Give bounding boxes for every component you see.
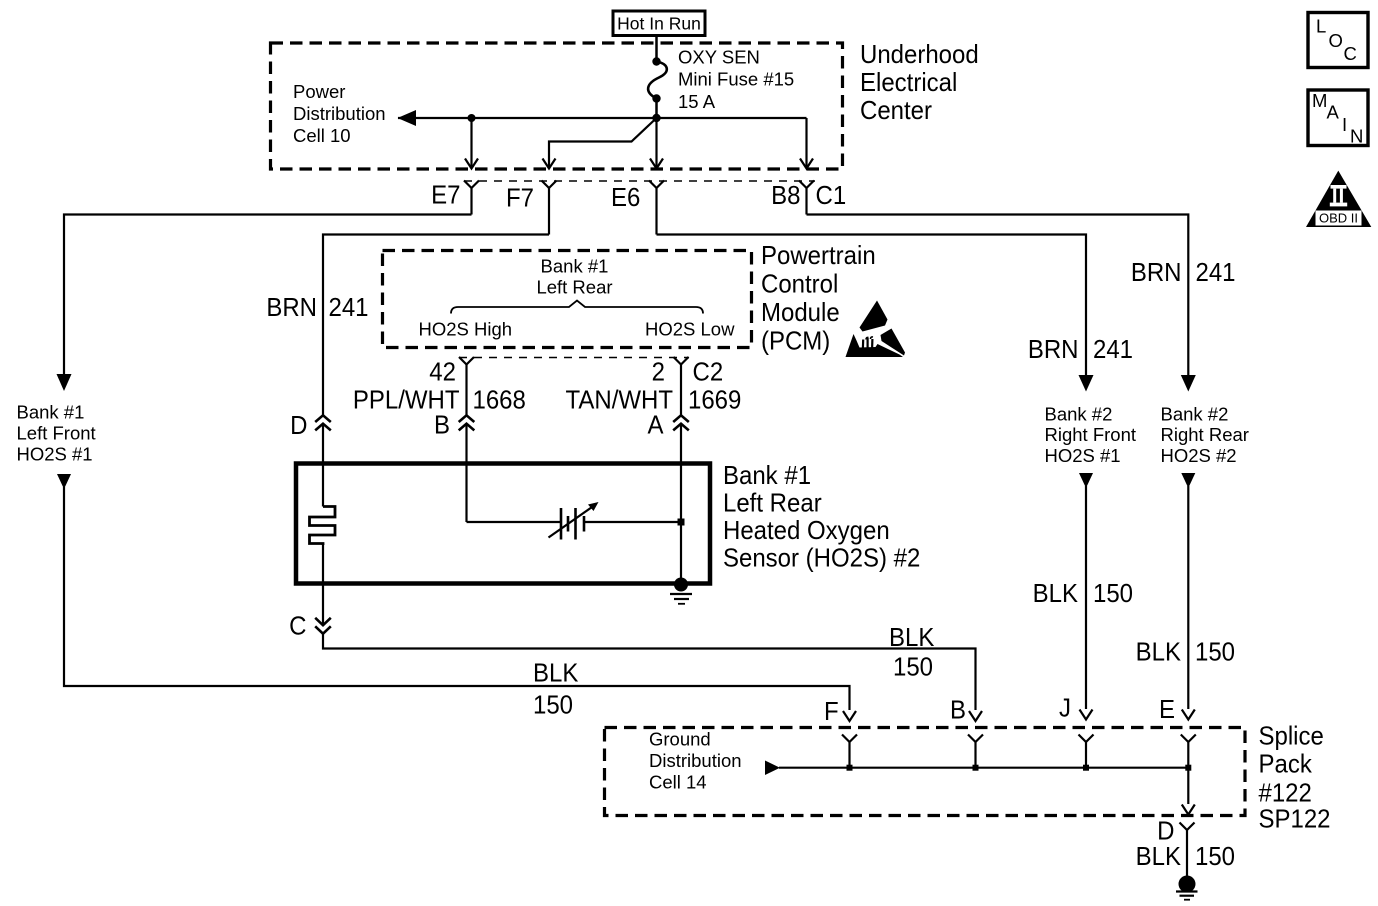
svg-text:Heated Oxygen: Heated Oxygen	[723, 516, 890, 545]
svg-text:Electrical: Electrical	[860, 68, 957, 97]
connector pin 2 C2	[674, 357, 689, 365]
svg-text:241: 241	[1093, 335, 1133, 364]
svg-text:(PCM): (PCM)	[761, 327, 830, 356]
svg-text:15 A: 15 A	[678, 91, 716, 112]
svg-text:Powertrain: Powertrain	[761, 241, 876, 270]
svg-text:Cell 10: Cell 10	[293, 125, 351, 146]
svg-text:A: A	[1327, 102, 1340, 123]
ESD sensitive icon	[846, 301, 906, 358]
svg-text:150: 150	[533, 691, 573, 720]
Underhood Electrical Center box (dashed)	[271, 43, 843, 169]
splice pack box (dashed)	[605, 728, 1246, 816]
svg-text:Sensor (HO2S) #2: Sensor (HO2S) #2	[723, 544, 920, 573]
svg-text:C2: C2	[693, 358, 724, 387]
svg-text:Underhood: Underhood	[860, 40, 979, 69]
node: sense element to ground junction	[678, 519, 685, 526]
svg-text:E6: E6	[611, 183, 640, 212]
wire drop to E6	[655, 118, 657, 168]
wire E7 to Bank1 Left Front	[64, 215, 472, 376]
connector E	[1181, 735, 1196, 743]
svg-text:F7: F7	[506, 184, 534, 213]
svg-text:I: I	[1342, 114, 1347, 135]
svg-text:L: L	[1316, 16, 1326, 37]
svg-text:B: B	[434, 411, 450, 440]
svg-text:HO2S High: HO2S High	[419, 319, 513, 340]
variable sense element (zirconia cell)	[467, 521, 562, 523]
svg-text:D: D	[290, 411, 307, 440]
sensor case ground	[674, 578, 688, 592]
connector E6	[649, 181, 664, 189]
svg-text:Right Rear: Right Rear	[1161, 424, 1249, 445]
wire E6 BRN 241 to Bank2 Right Front	[657, 235, 1087, 377]
svg-text:42: 42	[429, 358, 456, 387]
svg-text:BLK: BLK	[1136, 842, 1182, 871]
svg-text:HO2S #1: HO2S #1	[17, 444, 93, 465]
junction E	[1185, 765, 1191, 771]
svg-text:Distribution: Distribution	[649, 750, 742, 771]
wire Bank2 Right Front BLK 150 to splice J	[1079, 473, 1093, 488]
MAIN reference box	[1308, 90, 1368, 146]
wire C BLK 150 to splice pack B	[323, 634, 976, 710]
svg-text:B: B	[950, 696, 966, 725]
svg-text:Center: Center	[860, 96, 932, 125]
svg-text:241: 241	[1196, 258, 1236, 287]
svg-text:E7: E7	[431, 181, 460, 210]
PCM connector dashed line	[459, 357, 689, 359]
svg-text:HO2S #2: HO2S #2	[1161, 445, 1237, 466]
svg-text:F: F	[824, 697, 839, 726]
svg-text:1668: 1668	[473, 386, 526, 415]
svg-text:SP122: SP122	[1259, 805, 1331, 834]
svg-text:Power: Power	[293, 81, 345, 102]
svg-text:BLK: BLK	[1033, 579, 1079, 608]
svg-text:150: 150	[1195, 842, 1235, 871]
LOC reference box	[1308, 13, 1368, 68]
connector F7	[542, 181, 557, 189]
svg-text:J: J	[1059, 694, 1071, 723]
wire continues below Bank1 Left Front label	[57, 474, 71, 489]
ground bus with feed arrow	[765, 761, 780, 776]
junction F	[847, 765, 853, 771]
svg-text:241: 241	[329, 293, 369, 322]
svg-text:Distribution: Distribution	[293, 103, 386, 124]
svg-text:Bank #2: Bank #2	[1045, 404, 1113, 425]
svg-text:Left Rear: Left Rear	[723, 489, 822, 518]
wire diagonal jog to F7	[549, 118, 657, 168]
ground G122	[1179, 876, 1196, 893]
svg-text:Cell 14: Cell 14	[649, 772, 707, 793]
wire heater to pin C	[322, 544, 324, 626]
Hot In Run label box	[613, 11, 705, 36]
svg-text:BLK: BLK	[1136, 638, 1182, 667]
connector J	[1079, 735, 1094, 743]
wire drop to B8	[805, 118, 807, 168]
svg-text:C: C	[1344, 43, 1357, 64]
svg-text:N: N	[1350, 126, 1363, 147]
connector E7	[464, 181, 479, 189]
heater element	[310, 507, 336, 546]
brace over HO2S High / Low	[451, 301, 703, 314]
svg-text:BRN: BRN	[1131, 258, 1182, 287]
svg-text:Bank #1: Bank #1	[723, 461, 811, 490]
svg-text:B8: B8	[771, 181, 800, 210]
svg-text:Right Front: Right Front	[1045, 424, 1137, 445]
svg-text:O: O	[1329, 30, 1343, 51]
wire splice output D	[1187, 768, 1189, 804]
connector B8 / C1	[799, 181, 814, 189]
wire F7 BRN 241 to HO2S heater D	[323, 235, 549, 416]
svg-text:HO2S Low: HO2S Low	[645, 319, 735, 340]
svg-text:150: 150	[1195, 638, 1235, 667]
svg-text:OBD II: OBD II	[1319, 211, 1358, 226]
svg-text:Bank #1: Bank #1	[17, 402, 85, 423]
wire: feed bus to Power Distribution (arrow left)	[398, 117, 807, 119]
svg-text:2: 2	[652, 358, 665, 387]
svg-text:#122: #122	[1259, 779, 1312, 808]
svg-text:Pack: Pack	[1259, 750, 1313, 779]
HO2S #2 sensor box	[296, 464, 710, 584]
svg-text:BLK: BLK	[889, 623, 935, 652]
svg-text:BRN: BRN	[266, 293, 317, 322]
svg-text:OXY SEN: OXY SEN	[678, 47, 760, 68]
node junction above E7	[468, 114, 476, 122]
node: fuse output junction	[652, 114, 660, 122]
svg-text:Ground: Ground	[649, 729, 711, 750]
svg-text:Left Front: Left Front	[17, 423, 96, 444]
svg-text:150: 150	[893, 653, 933, 682]
fuse F15 OXY SEN Mini Fuse 15A	[652, 57, 660, 65]
svg-text:Bank #1: Bank #1	[541, 256, 609, 277]
wire drop to E7	[470, 118, 472, 168]
svg-text:Hot In Run: Hot In Run	[617, 14, 701, 34]
svg-text:M: M	[1312, 90, 1327, 111]
svg-text:BRN: BRN	[1028, 335, 1079, 364]
connector pin 42	[459, 357, 474, 365]
svg-text:Bank #2: Bank #2	[1161, 404, 1229, 425]
svg-text:A: A	[647, 411, 663, 440]
svg-text:Splice: Splice	[1259, 722, 1324, 751]
svg-text:Control: Control	[761, 270, 838, 299]
junction J	[1083, 765, 1089, 771]
wire Bank2 Right Rear BLK 150 to splice E	[1181, 473, 1195, 488]
connector B	[968, 735, 983, 743]
svg-text:Left Rear: Left Rear	[536, 277, 612, 298]
svg-text:E: E	[1159, 695, 1175, 724]
junction B	[973, 765, 979, 771]
svg-text:HO2S #1: HO2S #1	[1045, 445, 1121, 466]
svg-text:BLK: BLK	[533, 659, 579, 688]
wire C1 BRN 241 to Bank2 Right Rear	[807, 215, 1189, 377]
svg-text:Module: Module	[761, 298, 840, 327]
wire from Hot In Run to fuse	[655, 37, 658, 62]
OBD II symbol	[1306, 171, 1371, 227]
svg-text:C: C	[289, 612, 306, 641]
PCM box (dashed)	[383, 251, 752, 348]
connector F	[842, 735, 857, 743]
svg-text:150: 150	[1093, 579, 1133, 608]
svg-text:C1: C1	[816, 181, 847, 210]
svg-text:1669: 1669	[688, 386, 741, 415]
UEC connector dashed line	[464, 180, 815, 182]
svg-text:Mini Fuse #15: Mini Fuse #15	[678, 69, 794, 90]
